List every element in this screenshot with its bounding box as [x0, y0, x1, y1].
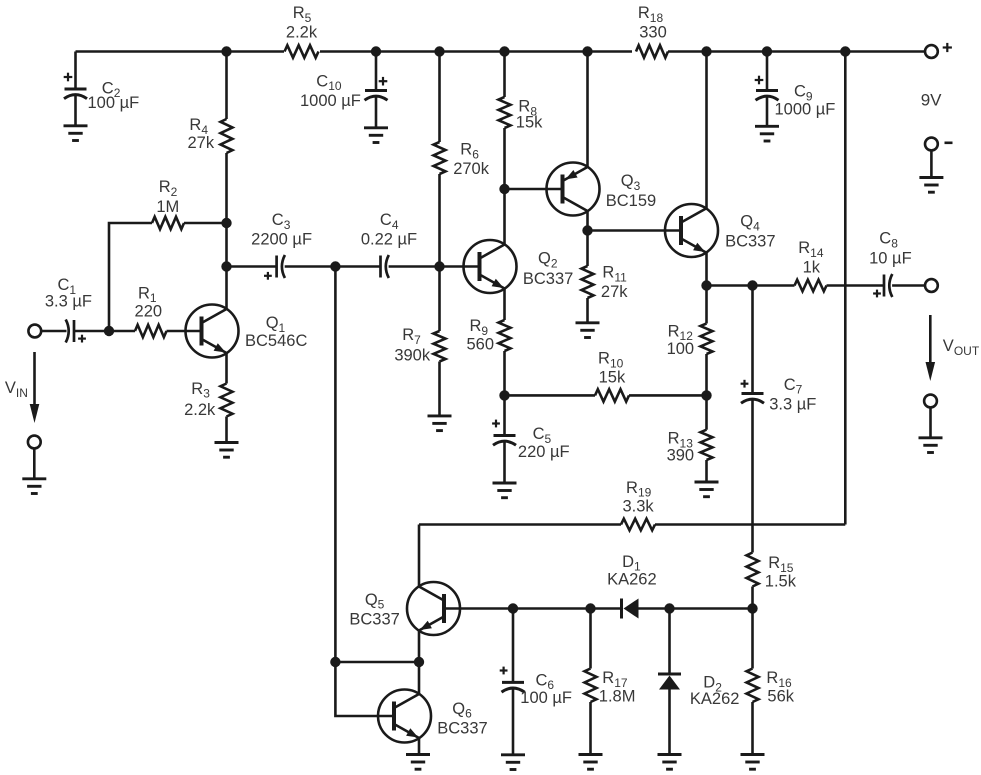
wire node1 down — [334, 267, 337, 663]
label 9V — [921, 91, 942, 110]
junction rail/R8 — [499, 46, 509, 56]
svg-text:15k: 15k — [599, 369, 626, 387]
svg-text:390k: 390k — [394, 346, 431, 364]
svg-text:BC159: BC159 — [606, 192, 656, 210]
wire R7 branch — [438, 267, 441, 332]
svg-text:0.22 µF: 0.22 µF — [361, 230, 417, 248]
wire rail to R6 — [438, 52, 441, 143]
capacitor C1 — [41, 276, 92, 342]
arrow VIN — [30, 352, 40, 423]
svg-text:BC337: BC337 — [437, 720, 487, 738]
junction R12/R13/R10 — [701, 390, 711, 400]
diode D2 — [658, 609, 739, 755]
resistor R14 — [795, 239, 827, 291]
wire R2 left branch — [109, 223, 152, 331]
svg-text:15k: 15k — [516, 113, 543, 131]
resistor R10 — [505, 350, 707, 402]
diode D1 — [607, 553, 657, 619]
junction C1/R2 — [104, 326, 114, 336]
junction rail/Q3 emitter — [582, 46, 592, 56]
wire link row — [335, 661, 419, 664]
wire Q4 emitter — [705, 252, 708, 285]
junction C6 top — [508, 603, 518, 613]
svg-text:2.2k: 2.2k — [286, 23, 318, 41]
wire Q5 base to C6 node — [444, 607, 513, 610]
wire R11 branch — [586, 231, 589, 267]
svg-text:KA262: KA262 — [690, 690, 740, 708]
svg-text:27k: 27k — [187, 134, 214, 152]
ground (R11) — [576, 323, 600, 338]
label VIN — [5, 379, 28, 400]
svg-text:BC337: BC337 — [349, 610, 399, 628]
wire top rail segment 3 — [668, 50, 925, 53]
wire Q3 collector — [586, 211, 589, 231]
wire input ground — [33, 448, 36, 478]
junction node1 — [330, 261, 340, 271]
wire out row to C7 — [707, 284, 795, 287]
svg-text:3.3 µF: 3.3 µF — [769, 396, 816, 414]
resistor R19 — [419, 479, 845, 530]
resistor R11 — [582, 264, 629, 301]
wire R7 to ground — [438, 362, 441, 416]
junction C4/R6 — [434, 261, 444, 271]
ground (R13) — [695, 482, 719, 497]
wire R8 to Q3 base node — [503, 128, 506, 189]
ground (R7) — [428, 416, 452, 431]
capacitor C3 — [227, 211, 313, 280]
ground (C5) — [493, 483, 517, 498]
wire R17 to ground — [589, 702, 592, 755]
wire rail to R8 — [503, 52, 506, 98]
svg-text:9V: 9V — [921, 91, 942, 110]
junction node1/link row — [330, 657, 340, 667]
svg-text:1k: 1k — [803, 259, 821, 277]
svg-text:BC546C: BC546C — [245, 332, 307, 350]
junction Q4 emitter/R12 — [701, 280, 711, 290]
wire C6 node to R17 node — [513, 607, 591, 610]
svg-text:10 µF: 10 µF — [869, 249, 912, 267]
ground (input) — [22, 479, 46, 494]
resistor R5 — [285, 4, 319, 57]
svg-text:KA262: KA262 — [607, 571, 657, 589]
junction R8/Q3 base — [499, 184, 509, 194]
ground (R17) — [579, 755, 603, 770]
junction C3/Q1 collector — [221, 261, 231, 271]
wire Q1 emitter — [225, 353, 228, 384]
wire Q6 emitter — [418, 738, 421, 755]
junction R15/R16/D1 — [747, 603, 757, 613]
transistor Q5 — [349, 582, 460, 635]
resistor R6 — [434, 141, 490, 178]
wire Q2 emitter — [503, 288, 506, 320]
svg-text:3.3k: 3.3k — [623, 497, 655, 515]
transistor Q4 — [665, 204, 776, 257]
junction R17 top — [585, 603, 595, 613]
resistor R3 — [184, 380, 232, 419]
capacitor C4 — [361, 211, 417, 278]
resistor R12 — [667, 322, 713, 358]
junction rail/R4 — [221, 46, 231, 56]
wire R17 node to D1 — [591, 607, 622, 610]
resistor R17 — [585, 609, 636, 706]
resistor R7 — [394, 326, 445, 364]
svg-text:220: 220 — [135, 303, 163, 321]
wire R6 to C4 node — [438, 174, 441, 267]
junction rail/feedback column — [840, 46, 850, 56]
ground (R3) — [215, 443, 239, 458]
svg-text:560: 560 — [466, 335, 494, 353]
terminal output — [925, 279, 938, 292]
wire R6 node to Q2 base — [440, 265, 480, 268]
capacitor C10 — [300, 52, 388, 128]
ground (D2) — [658, 755, 682, 770]
wire -9V to ground — [930, 150, 933, 177]
wire C4 to R6 node — [389, 265, 440, 268]
svg-text:1.5k: 1.5k — [765, 572, 797, 590]
wire Q5 emitter — [418, 630, 421, 662]
junction rail/R6 — [434, 46, 444, 56]
svg-text:3.3 µF: 3.3 µF — [45, 292, 92, 310]
wire R2 to R4 node — [184, 222, 227, 225]
wire C7 to R15 — [751, 400, 754, 553]
wire top rail segment 1 — [76, 50, 285, 53]
wire R15 to D1 row — [751, 587, 754, 609]
wire Q3 base — [505, 188, 563, 191]
wire C3 to node1 — [285, 265, 381, 268]
terminal -9V — [925, 138, 938, 151]
wire C8 to out terminal — [892, 284, 925, 287]
svg-text:220 µF: 220 µF — [518, 443, 570, 461]
wire D2 node to R15 node — [670, 607, 753, 610]
svg-text:1M: 1M — [156, 198, 179, 216]
svg-text:BC337: BC337 — [725, 233, 775, 251]
svg-text:330: 330 — [639, 23, 667, 41]
svg-text:56k: 56k — [767, 688, 794, 706]
wire R3 to ground — [225, 417, 228, 443]
wire D1 to D2 node — [639, 607, 670, 610]
capacitor C7 — [741, 286, 817, 414]
resistor R4 — [187, 116, 232, 153]
capacitor C2 — [64, 52, 140, 126]
arrow VOUT — [926, 315, 936, 381]
wire Q5 collector to R19 — [418, 525, 421, 587]
junction rail/Q4 collector — [701, 46, 711, 56]
capacitor C8 — [869, 230, 912, 298]
capacitor C6 — [500, 609, 572, 755]
wire R9 to R10 node — [503, 351, 506, 395]
wire R1 to Q1 base — [167, 330, 202, 333]
wire R13 to ground — [705, 460, 708, 482]
resistor R16 — [747, 609, 795, 706]
wire R12 — [705, 286, 708, 324]
junction Q5 emitter/Q6 collector — [414, 657, 424, 667]
wire R11 to ground — [586, 298, 589, 323]
svg-text:1000 µF: 1000 µF — [300, 92, 361, 110]
wire R12 to R10 node — [705, 354, 708, 395]
terminal input — [28, 325, 41, 338]
transistor Q6 — [378, 690, 488, 743]
label VOUT — [943, 337, 980, 358]
transistor Q1 — [186, 305, 308, 358]
wire R14 to C8 — [827, 284, 885, 287]
wire top rail segment 2 — [320, 50, 632, 53]
wire Q2 collector — [503, 189, 506, 245]
junction rail/C10 — [371, 46, 381, 56]
ground (Q6) — [406, 755, 430, 770]
ground (C6) — [501, 755, 525, 770]
wire node1 to Q6 base — [335, 662, 394, 716]
resistor R2 — [152, 178, 184, 229]
label minus — [945, 142, 953, 145]
svg-text:1000 µF: 1000 µF — [775, 101, 836, 119]
ground (C9) — [755, 126, 779, 141]
svg-text:390: 390 — [667, 447, 695, 465]
junction D2 top — [664, 603, 674, 613]
wire Q1 collector — [225, 267, 228, 310]
junction C7 top — [747, 280, 757, 290]
svg-text:100: 100 — [667, 340, 695, 358]
wire rail to Q3 emitter — [586, 52, 589, 168]
ground (C10) — [364, 128, 388, 143]
svg-text:2200 µF: 2200 µF — [251, 230, 312, 248]
resistor R13 — [667, 395, 713, 464]
svg-text:100 µF: 100 µF — [520, 689, 572, 707]
svg-text:270k: 270k — [453, 160, 490, 178]
resistor R8 — [499, 97, 544, 131]
svg-text:2.2k: 2.2k — [184, 401, 216, 419]
ground (C2) — [64, 126, 88, 141]
wire feedback column — [844, 52, 847, 525]
capacitor C5 — [492, 395, 570, 483]
svg-text:BC337: BC337 — [523, 270, 573, 288]
terminal output ground — [924, 395, 937, 408]
transistor Q2 — [464, 240, 574, 293]
junction rail/C9 — [762, 46, 772, 56]
wire R4 to C3 node — [225, 153, 228, 267]
wire Q3 to Q4 base — [588, 229, 682, 232]
wire Q6 collector — [418, 662, 421, 694]
wire C1 to R1 node — [74, 330, 135, 333]
junction R2/R4 — [221, 218, 231, 228]
svg-text:100 µF: 100 µF — [88, 94, 140, 112]
ground (battery minus) — [919, 178, 943, 193]
ground (R16) — [741, 755, 765, 770]
ground (output) — [919, 438, 943, 453]
junction Q3 collector/R11 — [582, 225, 592, 235]
wire rail to Q4 collector — [705, 52, 708, 209]
svg-text:27k: 27k — [601, 283, 628, 301]
resistor R1 — [135, 284, 167, 337]
terminal +9V — [925, 43, 952, 58]
transistor Q3 — [547, 163, 657, 216]
wire R16 to ground — [751, 702, 754, 755]
resistor R18 — [636, 4, 668, 57]
wire output ground — [929, 407, 932, 437]
resistor R9 — [466, 317, 510, 353]
resistor R15 — [747, 553, 797, 591]
svg-text:1.8M: 1.8M — [599, 688, 636, 706]
capacitor C9 — [755, 52, 836, 127]
terminal input ground — [28, 436, 41, 449]
wire rail to R4 — [225, 52, 228, 120]
junction R9/R10/C5 — [499, 390, 509, 400]
